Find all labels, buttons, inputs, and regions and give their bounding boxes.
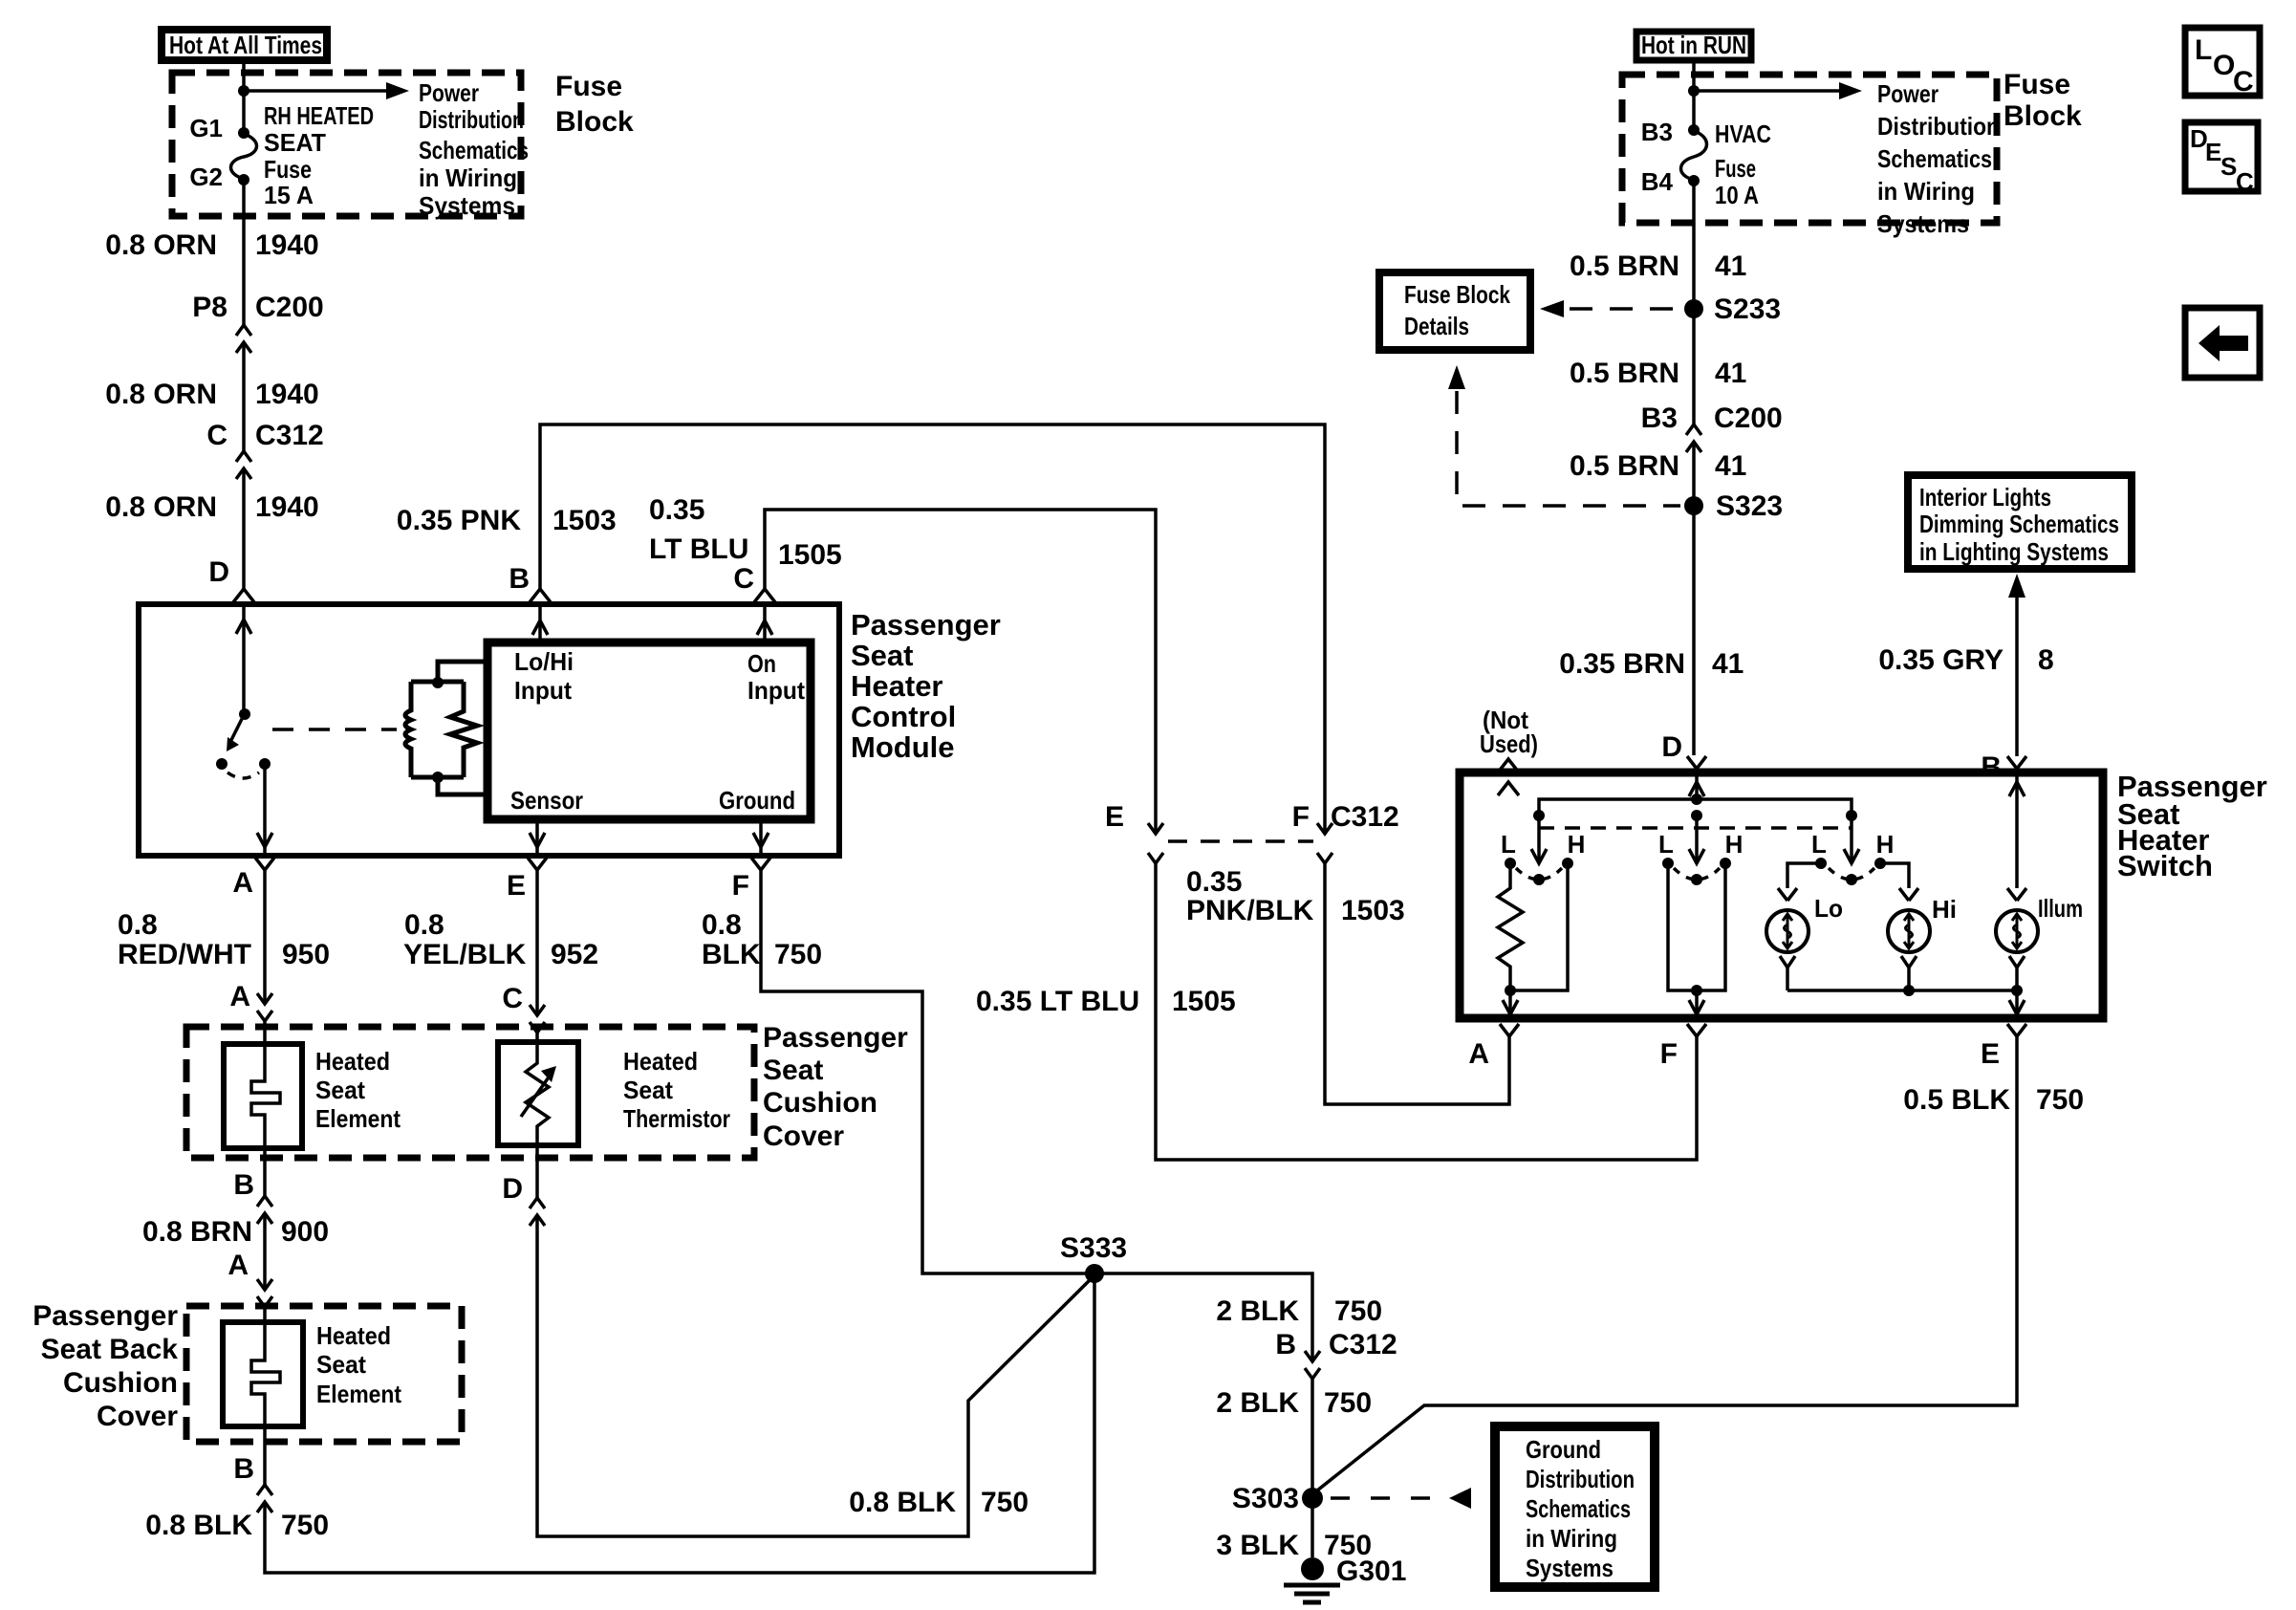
wire: D input inside module [236,604,251,714]
svg-text:Cover: Cover [97,1401,178,1432]
svg-text:Sensor: Sensor [510,786,583,815]
wire: Lo/Hi input pin (B) inside module [532,604,548,642]
terminal F of switch [1660,1024,1706,1070]
svg-text:S: S [2220,152,2237,181]
svg-text:L: L [1501,830,1516,859]
label box: Hot in RUN [1636,31,1751,60]
switch wiper feed bus [1533,799,1857,821]
svg-text:L: L [1658,830,1674,859]
svg-text:Lo/Hi: Lo/Hi [514,647,574,676]
svg-text:B: B [509,563,530,595]
svg-text:Seat: Seat [763,1055,823,1086]
connector C200 pin B3 (in-line) [1641,402,1783,452]
connector pin C (thermistor, in-line) [502,983,545,1042]
icon: back arrow button [2185,308,2260,378]
svg-text:S333: S333 [1060,1232,1127,1264]
svg-text:0.8 BLK: 0.8 BLK [145,1510,252,1541]
svg-text:in Wiring: in Wiring [1526,1524,1617,1553]
wire: Ground output pin (F) inside module [753,819,769,856]
wire: ignition feed from Hot in RUN [1692,61,1696,130]
svg-text:G1: G1 [189,114,223,142]
switch wiper 3 (lamp section) [1829,816,1874,885]
wire: lamp bus to terminal E [2009,990,2025,1018]
svg-text:D: D [208,556,229,588]
svg-text:0.8 ORN: 0.8 ORN [105,229,217,261]
splice S333 [1060,1232,1127,1283]
wire: 0.35 GRY 8 from switch B up (arrow into Interior Lights box) [1878,574,2053,756]
svg-text:750: 750 [281,1510,329,1541]
svg-text:H: H [1725,830,1744,859]
contact H1 [1562,830,1585,869]
terminal D of control module [208,556,254,602]
svg-text:950: 950 [282,939,330,970]
svg-text:1505: 1505 [1172,986,1236,1017]
svg-text:0.35: 0.35 [1186,866,1242,898]
svg-text:Systems: Systems [1526,1554,1614,1582]
svg-text:0.35 BRN: 0.35 BRN [1559,648,1685,680]
splice S233 [1684,294,1781,325]
label: Passenger Seat Heater Control Module [851,608,1001,764]
terminal F of control module (bottom) [732,858,770,902]
svg-text:C: C [2236,167,2254,196]
svg-text:Lo: Lo [1814,894,1843,923]
svg-text:41: 41 [1712,648,1744,680]
svg-text:0.8: 0.8 [404,909,444,941]
dashed arrow: S233 to Fuse Block Details [1540,300,1682,317]
svg-text:8: 8 [2038,644,2054,676]
svg-text:RED/WHT: RED/WHT [118,939,251,970]
label: Fuse Block (right) [2004,69,2082,132]
svg-text:Element: Element [315,1104,401,1133]
wire: 2 BLK 750 from C312 to S303 [1216,1379,1372,1557]
terminal B of control module [509,563,551,602]
label box: Fuse Block Details [1379,272,1530,350]
label: 0.35 PNK/BLK 1503 [1186,866,1405,926]
svg-text:750: 750 [981,1487,1029,1518]
heated seat thermistor [498,1042,730,1145]
svg-text:0.5 BRN: 0.5 BRN [1570,450,1679,482]
control module internal block [487,642,811,819]
svg-text:750: 750 [774,939,822,970]
svg-text:Cushion: Cushion [63,1367,178,1399]
svg-text:C312: C312 [255,420,324,451]
terminal A of control module (bottom) [232,858,274,899]
svg-text:0.8: 0.8 [702,909,742,941]
contact L3 [1811,830,1827,869]
label: 0.35 LT BLU 1505 (middle) [976,986,1236,1017]
svg-text:3 BLK: 3 BLK [1216,1530,1299,1561]
wire: Illum lamp to lamp bus [2009,956,2025,990]
svg-text:41: 41 [1715,250,1746,282]
label: Fuse Block (left) [555,71,634,138]
heated seat element (seat back) [223,1307,401,1426]
node: battery feed junction [238,85,249,97]
passenger seat heater switch box [1460,772,2103,1018]
svg-text:1503: 1503 [552,505,617,536]
lamp Illum [1996,894,2083,952]
wire: seat back element to B pin [233,1426,265,1485]
wire: switch to A output (module) [257,764,272,856]
svg-text:On: On [747,649,776,678]
contact L2 [1658,830,1674,869]
terminal (Not Used) of switch [1480,706,1538,795]
svg-text:952: 952 [551,939,598,970]
svg-text:0.8 ORN: 0.8 ORN [105,491,217,523]
contact H3 [1874,830,1894,869]
svg-text:0.5 BRN: 0.5 BRN [1570,358,1679,389]
icon: LOC button [2185,28,2260,98]
svg-text:2 BLK: 2 BLK [1216,1387,1299,1419]
svg-text:B3: B3 [1641,402,1678,434]
connector pin D (below thermistor, in-line) [530,1198,545,1226]
svg-text:Schematics: Schematics [1526,1494,1631,1523]
svg-text:B: B [233,1453,254,1485]
wire: Lo lamp to lamp bus [1780,956,1795,990]
svg-text:E: E [507,870,526,902]
svg-text:Hot in RUN: Hot in RUN [1641,31,1746,59]
svg-text:D: D [502,1173,523,1205]
svg-text:Switch: Switch [2117,849,2213,882]
terminal D of switch [1661,731,1706,769]
svg-text:Input: Input [514,676,572,705]
dashed mechanical link between wipers [1539,826,1852,830]
svg-text:H: H [1568,830,1586,859]
svg-text:F: F [732,870,749,902]
terminal E of control module (bottom) [507,858,547,902]
svg-text:Dimming Schematics: Dimming Schematics [1919,510,2119,538]
svg-text:Module: Module [851,730,955,764]
icon: DESC button [2185,122,2258,196]
svg-text:Ground: Ground [719,786,795,815]
svg-text:C312: C312 [1331,801,1399,833]
wire: 0.35 LT BLU 1505 from C up and over to C312 E [765,510,1156,834]
svg-text:Passenger: Passenger [851,608,1001,642]
svg-text:15 A: 15 A [264,181,314,209]
svg-text:B: B [233,1169,254,1201]
svg-text:2 BLK: 2 BLK [1216,1295,1299,1327]
wire: H3 to Hi lamp [1880,863,1918,901]
svg-text:Heated: Heated [316,1321,391,1350]
svg-text:0.5 BRN: 0.5 BRN [1570,250,1679,282]
wire: 0.35 LT BLU 1505 to switch F [1156,863,1697,1160]
svg-text:1505: 1505 [778,539,842,571]
svg-text:C: C [2233,66,2254,98]
svg-text:Fuse: Fuse [1715,154,1756,183]
label: Passenger Seat Heater Switch [2117,770,2267,882]
splice S323 [1684,490,1783,522]
wire: L2 and H2 to section 2 junction [1668,863,1725,996]
wire: 0.8 RED/WHT 950 [118,870,330,1004]
svg-text:Heated: Heated [623,1047,698,1076]
svg-text:D: D [1661,731,1682,763]
wire: B input inside switch to Illum lamp [2007,772,2026,901]
svg-text:F: F [1292,801,1310,833]
wire: Sensor output pin (E) inside module [530,819,545,856]
fuse block (left) dashed outline [172,73,521,216]
svg-text:C312: C312 [1329,1329,1397,1360]
svg-text:Passenger: Passenger [32,1300,178,1332]
svg-text:E: E [1981,1038,2000,1070]
connector C200 pin P8 (in-line) [192,292,323,353]
svg-text:0.35 PNK: 0.35 PNK [397,505,521,536]
svg-text:S303: S303 [1232,1483,1299,1514]
connector pin B (below seat back element, in-line) [257,1485,272,1512]
svg-text:Hi: Hi [1932,895,1957,924]
wire: thermistor to D pin [502,1145,537,1205]
label box: Hot At All Times [162,30,327,60]
terminal C of control module [733,563,775,602]
svg-text:0.8: 0.8 [118,909,158,941]
dashed link: switch arm to relay coil [272,728,397,731]
svg-text:Seat: Seat [315,1076,365,1104]
wire: H1 to section 1 junction [1505,863,1568,996]
fuse: RH HEATED SEAT Fuse 15 A, terminals G1/G2 [189,101,374,209]
wire: 0.8 BLK 750 (element ground) to S333 [145,1275,1094,1573]
svg-text:Fuse: Fuse [264,155,312,184]
svg-text:BLK: BLK [702,939,761,970]
svg-text:Seat: Seat [851,639,913,672]
wire: 0.8 BRN 900 [142,1213,329,1290]
contact H2 [1720,830,1743,869]
svg-text:Heated: Heated [315,1047,390,1076]
svg-text:750: 750 [2036,1084,2084,1116]
svg-text:YEL/BLK: YEL/BLK [403,939,527,970]
svg-text:in Lighting Systems: in Lighting Systems [1919,537,2109,566]
label: 3 BLK 750 [1216,1530,1372,1561]
passenger seat heater control module box [139,604,839,856]
wire: 0.5 BRN 41 segment 2 [1570,309,1746,424]
svg-text:Passenger: Passenger [763,1022,908,1054]
relay coil and resistor (parallel, module) [405,662,488,794]
svg-text:41: 41 [1715,358,1746,389]
svg-text:E: E [1105,801,1124,833]
svg-text:H: H [1876,830,1895,859]
svg-text:S323: S323 [1716,490,1783,522]
svg-text:Seat Back: Seat Back [41,1334,179,1365]
wire: 0.35 PNK/BLK 1503 to switch A [1325,863,1509,1104]
label: 0.35 PNK 1503 [397,505,617,536]
svg-text:Distribution: Distribution [1526,1465,1635,1493]
svg-text:750: 750 [1324,1387,1372,1419]
connector C312 pin C (in-line, left) [206,420,323,479]
svg-text:1940: 1940 [255,229,319,261]
svg-text:LT BLU: LT BLU [649,533,748,565]
svg-text:Thermistor: Thermistor [623,1104,730,1133]
svg-text:A: A [229,981,250,1012]
wire: 0.8 YEL/BLK 952 [403,870,598,1015]
switch wiper 2 (indicator section) [1674,816,1720,885]
wire: 0.5 BLK 750 from switch E to S303 [1312,1036,2084,1494]
svg-text:O: O [2213,50,2235,81]
svg-text:Fuse: Fuse [555,71,622,102]
wire: 0.8 ORN 1940 segment 1 [105,180,318,325]
svg-text:B4: B4 [1641,167,1674,196]
svg-text:0.5 BLK: 0.5 BLK [1903,1084,2010,1116]
svg-text:Systems: Systems [419,191,515,220]
lamp ground bus [1787,985,2023,996]
svg-text:F: F [1660,1038,1678,1070]
svg-text:B: B [1275,1329,1296,1360]
wire: section 2 output to terminal F [1689,990,1704,1018]
connector C312 (middle) pins E and F [1105,801,1399,863]
svg-text:G2: G2 [189,163,223,191]
svg-text:G301: G301 [1336,1556,1406,1587]
fuse block (right) dashed outline [1622,75,1997,223]
svg-text:Details: Details [1404,312,1469,340]
label: Power Distribution Schematics in Wiring Systems (left) [419,78,529,220]
lamp Lo [1766,894,1843,952]
svg-text:C: C [206,420,227,451]
svg-text:S233: S233 [1714,294,1781,325]
svg-text:C200: C200 [255,292,324,323]
svg-text:0.8 BLK: 0.8 BLK [849,1487,956,1518]
lamp Hi [1888,895,1957,952]
svg-text:1940: 1940 [255,491,319,523]
wire: 0.5 BRN 41 segment 1 [1570,181,1746,309]
svg-text:Hot At All Times: Hot At All Times [169,31,322,59]
arrow: to Power Distribution Schematics (right) [1694,82,1862,99]
wire: 2 BLK 750 from S333 to C312 [1094,1273,1382,1361]
svg-text:Fuse: Fuse [2004,69,2070,100]
connector pin A (seat back, in-line) [227,1250,272,1307]
ground G301 [1284,1556,1406,1602]
connector pin A (element, in-line) [229,981,272,1044]
wire: On input pin (C) inside module [757,604,772,642]
label box: Interior Lights Dimming Schematics in Lighting Systems [1908,475,2132,569]
svg-text:Fuse Block: Fuse Block [1404,280,1510,309]
passenger seat cushion cover (dashed) [186,1022,908,1158]
fuse: HVAC Fuse 10 A, terminals B3/B4 [1641,118,1771,209]
svg-text:Heater: Heater [851,669,943,703]
svg-text:E: E [2205,138,2221,166]
svg-text:Schematics: Schematics [419,136,529,164]
switch wiper 1 (heater section) [1516,816,1562,885]
wire: 0.35 BRN 41 to switch D [1559,506,1744,755]
splice S303 [1232,1483,1323,1514]
svg-text:HVAC: HVAC [1715,120,1771,148]
terminal B of switch [1981,751,2026,783]
wire: Hi lamp to lamp bus [1901,956,1917,990]
svg-text:C200: C200 [1714,402,1783,434]
arrow: to Power Distribution Schematics (left) [244,82,409,99]
svg-text:SEAT: SEAT [264,128,326,157]
svg-text:0.35 LT BLU: 0.35 LT BLU [976,986,1139,1017]
contact L1 [1501,830,1516,869]
heated seat element (seat cushion) [224,1044,401,1148]
svg-text:L: L [2195,34,2212,66]
svg-text:Control: Control [851,700,956,733]
svg-text:in Wiring: in Wiring [1877,177,1975,206]
svg-text:PNK/BLK: PNK/BLK [1186,895,1314,926]
svg-text:0.35 GRY: 0.35 GRY [1878,644,2004,676]
svg-text:Systems: Systems [1877,209,1969,238]
svg-text:Block: Block [2004,100,2082,132]
svg-text:in Wiring: in Wiring [419,163,517,192]
svg-text:RH HEATED: RH HEATED [264,101,374,130]
dashed arrow: S323 up to Fuse Block Details [1448,365,1680,506]
svg-text:C: C [733,563,754,595]
terminal E of switch [1981,1024,2026,1070]
svg-text:900: 900 [281,1216,329,1248]
wire: 0.8 BLK 750 (sensor ground) to S333 [537,1215,1094,1536]
svg-text:Input: Input [747,676,805,705]
connector C312 pin B (in-line, bottom) [1275,1329,1397,1379]
wire: battery feed from Hot At All Times [242,63,246,131]
svg-text:750: 750 [1334,1295,1382,1327]
svg-text:B3: B3 [1641,118,1673,146]
relay switch arm (module) [216,708,271,778]
wire: 0.8 ORN 1940 segment 3 [105,468,318,589]
svg-text:Cover: Cover [763,1120,844,1152]
wire: L3 to Lo lamp [1778,863,1821,901]
svg-text:0.8 BRN: 0.8 BRN [142,1216,252,1248]
label: 0.35 LT BLU 1505 [649,494,842,571]
label box: Ground Distribution Schematics in Wiring Systems [1495,1426,1655,1587]
svg-text:Seat: Seat [623,1076,673,1104]
svg-text:0.8 ORN: 0.8 ORN [105,379,217,410]
svg-text:A: A [1468,1038,1489,1070]
svg-text:Used): Used) [1480,729,1538,758]
svg-text:A: A [232,867,253,899]
svg-text:0.35: 0.35 [649,494,704,526]
svg-text:Distribution: Distribution [1877,112,2000,141]
node: ignition feed junction [1688,85,1700,97]
wire: D input inside switch to wiper bus [1689,772,1704,805]
svg-text:B: B [1981,751,2002,783]
passenger seat back cushion cover (dashed) [32,1300,462,1442]
svg-text:41: 41 [1715,450,1746,482]
svg-text:1940: 1940 [255,379,319,410]
svg-text:Seat: Seat [316,1350,366,1379]
connector pin B (below element, in-line) [257,1196,272,1224]
svg-text:L: L [1811,830,1827,859]
svg-text:P8: P8 [192,292,227,323]
svg-text:Schematics: Schematics [1877,144,1992,173]
label: Power Distribution Schematics in Wiring Systems (right) [1877,79,2000,238]
wire: 0.35 PNK 1503 from B up and over to C312 F [540,424,1325,834]
svg-text:Cushion: Cushion [763,1087,877,1119]
svg-text:10 A: 10 A [1715,181,1759,209]
svg-text:Distribution: Distribution [419,105,524,134]
wire: 0.8 BLK 750 from module ground F to S333 [702,870,1094,1273]
svg-text:Illum: Illum [2038,894,2083,923]
svg-text:Ground: Ground [1526,1435,1601,1464]
svg-text:Interior Lights: Interior Lights [1919,483,2051,511]
wire: 0.8 ORN 1940 segment 2 [105,342,318,451]
wire: 0.5 BRN 41 segment 3 [1570,442,1746,506]
svg-text:A: A [227,1250,249,1281]
svg-text:Power: Power [419,78,479,107]
terminal A of switch [1468,1024,1519,1070]
svg-text:C: C [502,983,523,1014]
wire: section 1 output to terminal A [1503,990,1518,1018]
svg-text:Power: Power [1877,79,1939,108]
resistor (switch low-heat) [1498,863,1523,990]
svg-text:Block: Block [555,106,634,138]
svg-text:1503: 1503 [1341,895,1405,926]
dashed arrow: S303 to Ground Distribution box [1331,1488,1471,1509]
wire: element to B pin [233,1148,265,1201]
svg-text:Element: Element [316,1380,401,1408]
